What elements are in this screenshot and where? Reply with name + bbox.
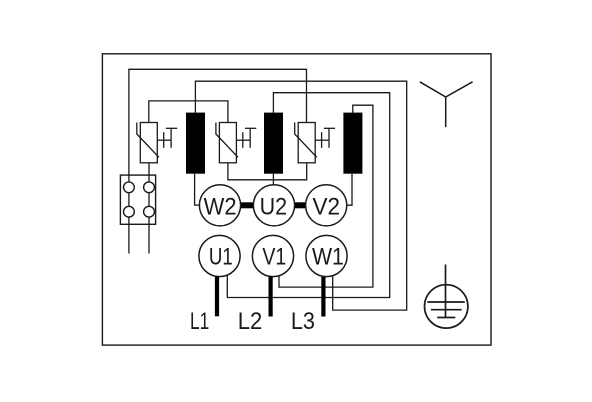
wire winding1 bottom to terminal W2 <box>195 174 200 205</box>
terminal W2 <box>199 185 240 226</box>
terminal U2 <box>253 185 294 226</box>
pin L1 <box>215 276 219 316</box>
terminal box border <box>102 54 491 345</box>
wire block pin2 internal <box>148 193 150 207</box>
svg-text:L2: L2 <box>238 307 263 334</box>
svg-text:L1: L1 <box>190 308 209 334</box>
terminal V1 <box>252 235 293 276</box>
terminal U1 <box>199 235 240 276</box>
svg-text:V2: V2 <box>313 193 341 220</box>
wire winding3 bottom to terminal V2 <box>347 174 352 206</box>
svg-text:U2: U2 <box>260 192 287 219</box>
wire thermistor TP1 bottom to block pin2 <box>148 163 150 182</box>
winding 1 <box>186 113 205 174</box>
terminal W1 <box>306 235 347 276</box>
wire winding3 top to terminal V1 (long loop) <box>279 105 373 287</box>
wire block pin1 internal <box>128 193 130 207</box>
svg-text:L3: L3 <box>291 307 315 334</box>
wire block pin1 to thermistor TP3 top <box>129 69 307 182</box>
link W2-U2 <box>240 202 254 208</box>
thermistor TP3 <box>295 123 335 163</box>
wire winding2 bottom to terminal U2 <box>272 174 274 185</box>
wire block pin2 lead out <box>148 217 150 253</box>
thermistor TP2 <box>216 123 256 163</box>
connector block X1 <box>120 175 155 224</box>
svg-text:V1: V1 <box>262 243 286 270</box>
wire winding1 top to terminal W1 (long loop) <box>195 81 406 310</box>
pin L3 <box>321 277 325 317</box>
wire thermistor TP1 top to TP2 top <box>149 101 228 123</box>
link U2-V2 <box>294 202 306 208</box>
wire block pin1 lead out <box>128 217 130 253</box>
star point symbol <box>420 82 473 127</box>
svg-text:U1: U1 <box>209 244 233 271</box>
pin L2 <box>269 277 273 317</box>
svg-text:W2: W2 <box>204 192 237 219</box>
ground <box>425 265 468 329</box>
wire winding2 top to terminal U1 (long loop) <box>227 93 389 298</box>
terminal V2 <box>306 185 347 226</box>
svg-text:W1: W1 <box>312 242 344 270</box>
winding 3 <box>343 113 362 174</box>
thermistor TP1 <box>137 123 177 163</box>
wire thermistor TP2 bottom to TP3 bottom <box>228 163 307 180</box>
winding 2 <box>264 113 283 174</box>
